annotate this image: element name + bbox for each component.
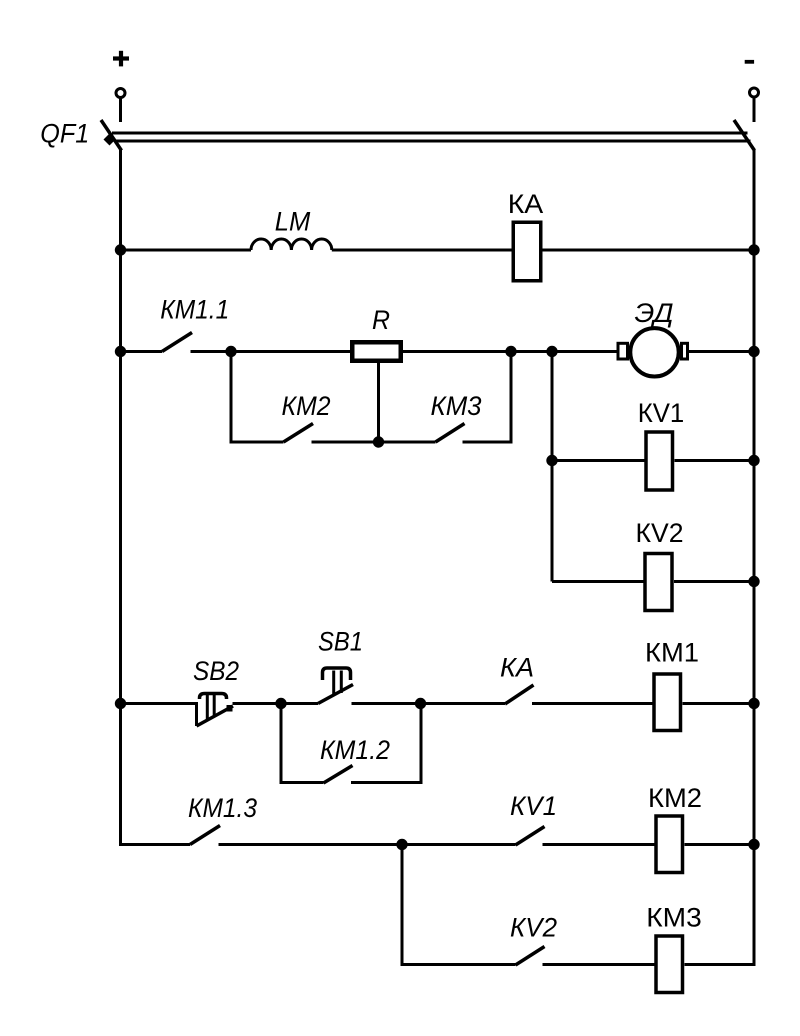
svg-text:КМ3: КМ3 bbox=[431, 391, 482, 421]
svg-text:ЭД: ЭД bbox=[635, 298, 674, 328]
svg-text:КV2: КV2 bbox=[636, 518, 684, 548]
svg-text:КМ1: КМ1 bbox=[645, 638, 699, 668]
svg-text:КV1: КV1 bbox=[510, 791, 557, 821]
svg-text:КА: КА bbox=[500, 653, 534, 683]
svg-text:КМ1.1: КМ1.1 bbox=[160, 294, 229, 324]
svg-text:КА: КА bbox=[508, 189, 544, 219]
svg-text:КV2: КV2 bbox=[510, 912, 557, 942]
svg-text:КМ1.2: КМ1.2 bbox=[320, 735, 390, 765]
svg-text:R: R bbox=[372, 305, 390, 335]
svg-text:LM: LM bbox=[275, 207, 311, 237]
svg-text:КV1: КV1 bbox=[638, 398, 685, 428]
svg-text:КМ1.3: КМ1.3 bbox=[188, 793, 257, 823]
svg-text:КМ3: КМ3 bbox=[646, 903, 702, 933]
svg-text:КМ2: КМ2 bbox=[282, 391, 331, 421]
svg-text:SB2: SB2 bbox=[193, 656, 239, 686]
svg-text:SB1: SB1 bbox=[318, 626, 363, 656]
svg-text:QF1: QF1 bbox=[40, 119, 89, 149]
svg-text:КМ2: КМ2 bbox=[648, 783, 702, 813]
